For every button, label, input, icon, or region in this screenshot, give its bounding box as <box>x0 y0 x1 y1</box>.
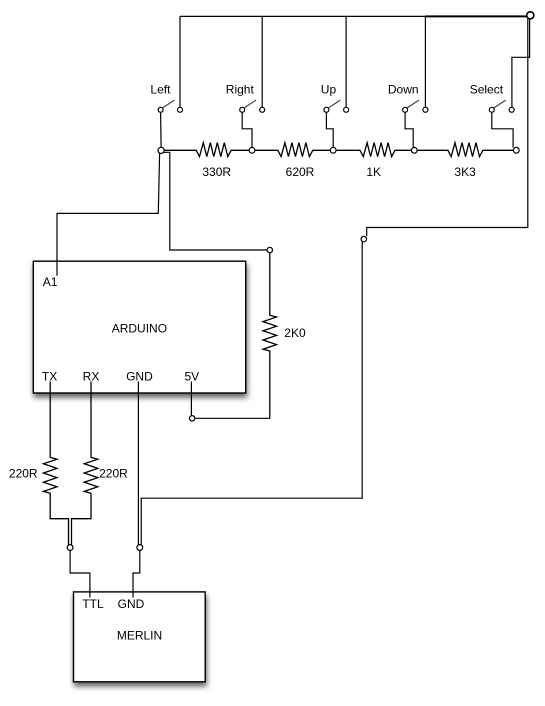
wire Down switch to node D <box>405 112 413 147</box>
svg-text:2K0: 2K0 <box>284 326 306 340</box>
svg-text:MERLIN: MERLIN <box>117 629 162 643</box>
resistor R4 3K3 <box>417 143 513 179</box>
svg-text:Down: Down <box>388 83 419 97</box>
node C junction <box>330 147 336 153</box>
wire GND junction to merlin GND pin <box>133 550 140 597</box>
wire Right switch to node B <box>242 112 252 147</box>
wire Select switch to node E <box>492 112 513 147</box>
svg-text:220R: 220R <box>9 466 38 480</box>
node E junction <box>513 147 519 153</box>
resistor R2 620R <box>255 143 330 179</box>
node top-right terminal <box>527 12 534 19</box>
box U1 ARDUINO <box>33 261 245 393</box>
node rail terminal <box>361 236 366 241</box>
svg-text:3K3: 3K3 <box>454 165 476 179</box>
svg-text:TTL: TTL <box>82 597 104 611</box>
svg-text:GND: GND <box>118 597 145 611</box>
wire top terminal to Select switch <box>512 19 530 108</box>
resistor R6 220R (TX) <box>9 382 69 545</box>
resistor R5 2K0 <box>263 253 306 419</box>
wire top supply bus (left span) <box>180 15 425 17</box>
svg-text:Right: Right <box>226 83 255 97</box>
wire bus drop to Right switch <box>261 16 263 107</box>
svg-text:620R: 620R <box>286 165 315 179</box>
svg-text:5V: 5V <box>184 369 199 383</box>
wire node A to 2K0 top <box>164 152 267 250</box>
node B junction <box>249 147 255 153</box>
wire right rail lower to GND junction <box>141 242 362 545</box>
svg-text:TX: TX <box>42 369 57 383</box>
svg-text:A1: A1 <box>43 275 58 289</box>
node 5V terminal <box>189 416 194 421</box>
wire bus drop to Up switch <box>345 16 347 107</box>
svg-text:ARDUINO: ARDUINO <box>112 322 167 336</box>
svg-text:Select: Select <box>470 83 504 97</box>
svg-text:1K: 1K <box>366 165 381 179</box>
node D junction <box>411 147 417 153</box>
wire Left switch to node A <box>160 112 163 147</box>
svg-text:Up: Up <box>321 83 337 97</box>
wire 2K0 bottom to 5V terminal <box>195 417 270 419</box>
wire right rail upper <box>367 19 528 237</box>
resistor R7 220R (RX) <box>72 382 129 545</box>
svg-text:Left: Left <box>150 83 171 97</box>
wire GND pin down <box>137 382 139 545</box>
resistor R1 330R <box>164 143 249 179</box>
wire bus drop to Down switch <box>424 16 426 107</box>
resistor R3 1K <box>336 143 411 179</box>
wire 5V pin down <box>190 382 192 416</box>
svg-text:220R: 220R <box>99 466 128 480</box>
svg-text:GND: GND <box>126 369 153 383</box>
node GND junction <box>137 545 143 551</box>
wire node A to A1 pin <box>57 153 160 275</box>
wire Up switch to node C <box>326 112 333 147</box>
node 2K0 top terminal <box>267 247 272 252</box>
svg-text:330R: 330R <box>202 165 231 179</box>
node TTL junction <box>67 545 73 551</box>
node A junction <box>158 147 164 153</box>
wire TTL junction to TTL pin <box>70 550 90 597</box>
wire bus drop to Left switch <box>179 16 181 107</box>
wire top supply bus (bold right span) <box>425 15 527 17</box>
svg-text:RX: RX <box>83 369 100 383</box>
box U2 MERLIN <box>74 592 206 682</box>
